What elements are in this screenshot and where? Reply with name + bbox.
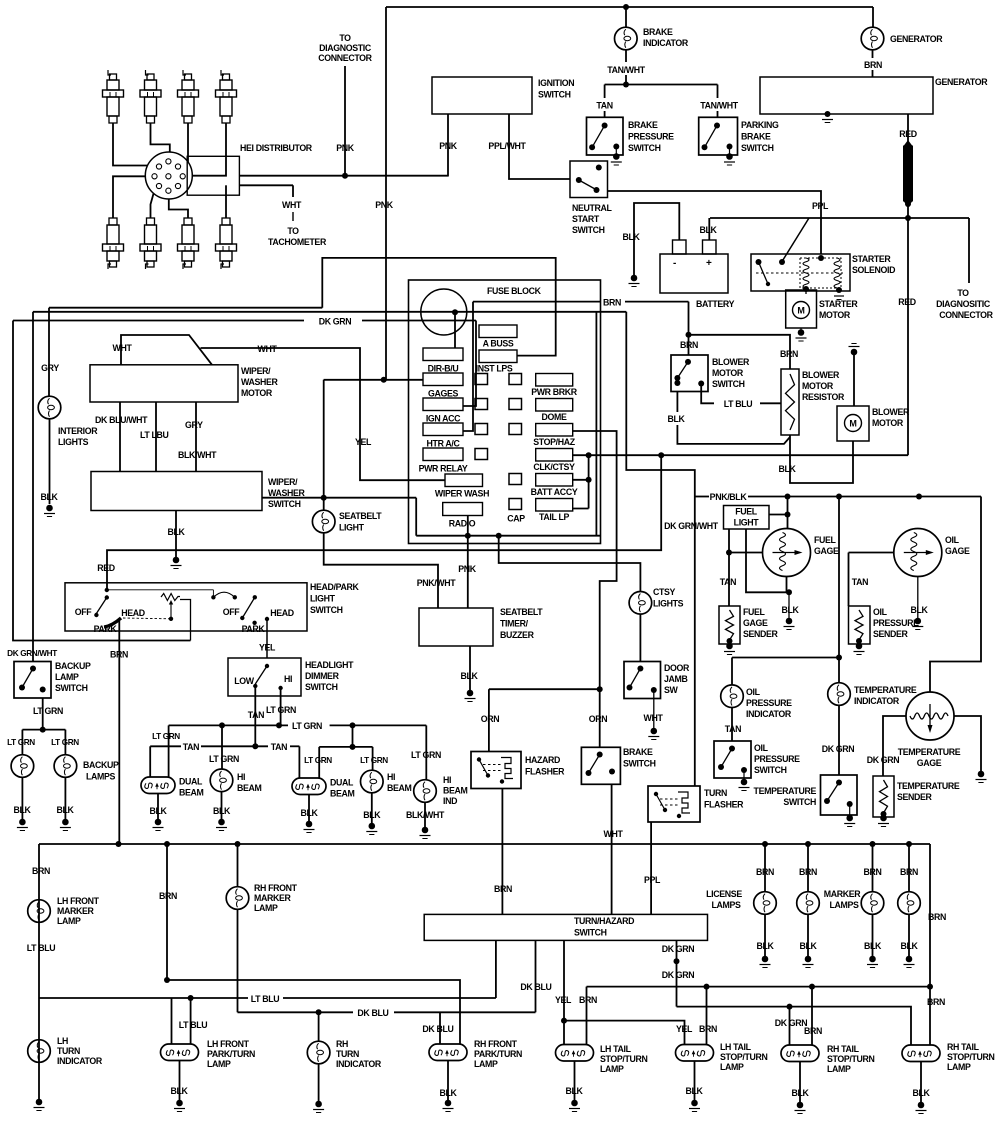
svg-text:RED: RED bbox=[97, 563, 115, 573]
svg-text:LT GRN: LT GRN bbox=[209, 754, 239, 764]
svg-text:BEAM: BEAM bbox=[387, 783, 412, 793]
svg-text:DK GRN: DK GRN bbox=[319, 317, 352, 327]
svg-text:WIPER/: WIPER/ bbox=[268, 477, 298, 487]
svg-text:M: M bbox=[849, 419, 856, 429]
svg-text:LT BLU: LT BLU bbox=[251, 994, 280, 1004]
svg-text:DUAL: DUAL bbox=[330, 778, 354, 788]
svg-text:HI: HI bbox=[387, 772, 395, 782]
svg-text:BRN: BRN bbox=[927, 997, 945, 1007]
svg-text:BLK: BLK bbox=[910, 605, 928, 615]
svg-text:HAZARD: HAZARD bbox=[525, 755, 560, 765]
svg-text:MOTOR: MOTOR bbox=[712, 368, 744, 378]
svg-text:SWITCH: SWITCH bbox=[574, 928, 607, 938]
svg-text:WASHER: WASHER bbox=[241, 377, 279, 387]
svg-text:RH FRONT: RH FRONT bbox=[474, 1039, 518, 1049]
svg-text:RADIO: RADIO bbox=[449, 519, 476, 529]
svg-text:WHT: WHT bbox=[644, 713, 664, 723]
svg-text:BEAM: BEAM bbox=[443, 786, 468, 796]
svg-text:TACHOMETER: TACHOMETER bbox=[268, 237, 327, 247]
svg-text:LAMP: LAMP bbox=[600, 1064, 624, 1074]
svg-text:BLK: BLK bbox=[699, 225, 717, 235]
svg-text:BATTERY: BATTERY bbox=[696, 299, 735, 309]
svg-text:OFF: OFF bbox=[75, 607, 93, 617]
svg-text:INDICATOR: INDICATOR bbox=[643, 38, 689, 48]
svg-text:IGNITION: IGNITION bbox=[538, 78, 574, 88]
svg-text:SWITCH: SWITCH bbox=[712, 379, 745, 389]
svg-text:SENDER: SENDER bbox=[873, 629, 909, 639]
svg-text:BLOWER: BLOWER bbox=[712, 357, 750, 367]
svg-text:BLK: BLK bbox=[900, 941, 918, 951]
svg-text:PWR BRKR: PWR BRKR bbox=[531, 387, 578, 397]
svg-text:TAN: TAN bbox=[725, 724, 741, 734]
svg-text:STOP/TURN: STOP/TURN bbox=[720, 1052, 768, 1062]
svg-text:OIL: OIL bbox=[754, 743, 769, 753]
svg-text:INTERIOR: INTERIOR bbox=[58, 426, 98, 436]
svg-text:LAMP: LAMP bbox=[207, 1059, 231, 1069]
svg-text:TEMPERATURE: TEMPERATURE bbox=[897, 781, 960, 791]
svg-text:BLK: BLK bbox=[170, 1086, 188, 1096]
svg-text:LIGHT: LIGHT bbox=[339, 523, 365, 533]
svg-text:TAN/WHT: TAN/WHT bbox=[700, 101, 738, 111]
svg-text:WHT: WHT bbox=[113, 343, 133, 353]
svg-text:SWITCH: SWITCH bbox=[310, 605, 343, 615]
svg-text:LAMPS: LAMPS bbox=[711, 900, 741, 910]
svg-text:TURN: TURN bbox=[57, 1046, 80, 1056]
svg-text:HTR A/C: HTR A/C bbox=[427, 439, 461, 449]
svg-text:DOME: DOME bbox=[542, 412, 567, 422]
svg-text:PPL/WHT: PPL/WHT bbox=[488, 141, 526, 151]
svg-text:TEMPERATURE: TEMPERATURE bbox=[854, 685, 917, 695]
svg-text:PRESSURE: PRESSURE bbox=[754, 754, 800, 764]
svg-text:BRN: BRN bbox=[699, 1024, 717, 1034]
svg-text:TEMPERATURE: TEMPERATURE bbox=[898, 747, 961, 757]
svg-text:LH: LH bbox=[57, 1036, 68, 1046]
svg-text:LIGHT: LIGHT bbox=[734, 518, 760, 528]
svg-text:LT GRN: LT GRN bbox=[7, 738, 35, 747]
svg-text:SWITCH: SWITCH bbox=[538, 90, 571, 100]
svg-text:BUZZER: BUZZER bbox=[500, 630, 535, 640]
svg-text:PNK: PNK bbox=[439, 141, 458, 151]
svg-text:BLK: BLK bbox=[439, 1088, 457, 1098]
svg-text:HEI DISTRIBUTOR: HEI DISTRIBUTOR bbox=[240, 143, 313, 153]
svg-text:YEL: YEL bbox=[259, 643, 276, 653]
svg-text:WASHER: WASHER bbox=[268, 488, 306, 498]
svg-text:DUAL: DUAL bbox=[179, 777, 203, 787]
svg-text:BLK: BLK bbox=[149, 806, 167, 816]
svg-text:-: - bbox=[673, 258, 676, 269]
svg-text:PARK/TURN: PARK/TURN bbox=[474, 1049, 522, 1059]
svg-text:RH TAIL: RH TAIL bbox=[947, 1042, 980, 1052]
svg-text:PRESSURE: PRESSURE bbox=[873, 618, 919, 628]
svg-text:HI: HI bbox=[284, 674, 292, 684]
svg-text:LT GRN: LT GRN bbox=[411, 750, 441, 760]
svg-text:TURN: TURN bbox=[336, 1049, 359, 1059]
svg-text:BLK/WHT: BLK/WHT bbox=[406, 810, 445, 820]
svg-text:CLK/CTSY: CLK/CTSY bbox=[533, 462, 575, 472]
svg-text:+: + bbox=[706, 258, 712, 269]
svg-text:STARTER: STARTER bbox=[819, 299, 858, 309]
svg-text:BLOWER: BLOWER bbox=[802, 370, 840, 380]
svg-text:GAGE: GAGE bbox=[743, 618, 768, 628]
svg-text:PRESSURE: PRESSURE bbox=[746, 698, 792, 708]
svg-text:SWITCH: SWITCH bbox=[628, 143, 661, 153]
svg-text:GENERATOR: GENERATOR bbox=[935, 77, 988, 87]
svg-text:SENDER: SENDER bbox=[897, 792, 933, 802]
svg-text:LT GRN: LT GRN bbox=[360, 756, 388, 765]
svg-text:BLK: BLK bbox=[912, 1088, 930, 1098]
svg-text:MARKER: MARKER bbox=[824, 889, 862, 899]
svg-text:DK BLU: DK BLU bbox=[422, 1024, 453, 1034]
svg-text:PNK/WHT: PNK/WHT bbox=[417, 578, 457, 588]
svg-text:RED: RED bbox=[898, 297, 916, 307]
svg-text:BRN: BRN bbox=[864, 60, 882, 70]
svg-text:LH TAIL: LH TAIL bbox=[720, 1042, 752, 1052]
svg-text:GAGE: GAGE bbox=[945, 546, 970, 556]
svg-text:DIR-B/U: DIR-B/U bbox=[428, 364, 459, 374]
svg-text:SWITCH: SWITCH bbox=[268, 499, 301, 509]
svg-text:PARK/TURN: PARK/TURN bbox=[207, 1049, 255, 1059]
svg-text:HEAD: HEAD bbox=[270, 608, 294, 618]
svg-text:WIPER WASH: WIPER WASH bbox=[435, 489, 489, 499]
svg-text:FUSE BLOCK: FUSE BLOCK bbox=[487, 286, 542, 296]
svg-text:GENERATOR: GENERATOR bbox=[890, 34, 943, 44]
svg-text:DK GRN/WHT: DK GRN/WHT bbox=[7, 649, 57, 658]
svg-text:FUEL: FUEL bbox=[743, 607, 766, 617]
svg-text:M: M bbox=[797, 306, 804, 316]
svg-text:LT GRN: LT GRN bbox=[152, 732, 180, 741]
svg-text:JAMB: JAMB bbox=[664, 674, 688, 684]
svg-text:TAN: TAN bbox=[271, 742, 287, 752]
svg-text:TAN: TAN bbox=[248, 710, 264, 720]
svg-text:BRN: BRN bbox=[603, 298, 621, 308]
svg-text:BRN: BRN bbox=[32, 866, 50, 876]
svg-text:PARKING: PARKING bbox=[741, 120, 779, 130]
svg-text:PNK/BLK: PNK/BLK bbox=[710, 492, 748, 502]
svg-text:LAMPS: LAMPS bbox=[829, 900, 859, 910]
svg-text:BRN: BRN bbox=[863, 867, 881, 877]
svg-text:LAMP: LAMP bbox=[57, 916, 81, 926]
svg-text:LT BLU: LT BLU bbox=[724, 399, 753, 409]
svg-text:BLK: BLK bbox=[778, 464, 796, 474]
svg-text:BLK: BLK bbox=[781, 605, 799, 615]
svg-text:STOP/TURN: STOP/TURN bbox=[947, 1052, 995, 1062]
svg-text:BLOWER: BLOWER bbox=[872, 407, 910, 417]
svg-text:DIMMER: DIMMER bbox=[305, 671, 340, 681]
svg-text:INDICATOR: INDICATOR bbox=[746, 709, 792, 719]
svg-text:BLK: BLK bbox=[167, 527, 185, 537]
svg-text:TO: TO bbox=[957, 288, 969, 298]
svg-text:STOP/TURN: STOP/TURN bbox=[600, 1054, 648, 1064]
svg-text:PRESSURE: PRESSURE bbox=[628, 132, 674, 142]
svg-text:BRAKE: BRAKE bbox=[628, 120, 658, 130]
svg-text:SW: SW bbox=[664, 685, 679, 695]
svg-text:TAN/WHT: TAN/WHT bbox=[607, 65, 645, 75]
svg-text:LAMP: LAMP bbox=[474, 1059, 498, 1069]
svg-text:BLK: BLK bbox=[213, 806, 231, 816]
svg-text:FUEL: FUEL bbox=[814, 535, 837, 545]
svg-text:BLK: BLK bbox=[40, 492, 58, 502]
svg-text:DK GRN: DK GRN bbox=[662, 970, 695, 980]
svg-text:BRN: BRN bbox=[494, 884, 512, 894]
svg-text:FUEL: FUEL bbox=[735, 507, 758, 517]
svg-text:LT BLU: LT BLU bbox=[179, 1020, 208, 1030]
svg-text:LH FRONT: LH FRONT bbox=[207, 1039, 250, 1049]
svg-text:TIMER/: TIMER/ bbox=[500, 619, 529, 629]
svg-text:BLK: BLK bbox=[622, 232, 640, 242]
svg-text:LT BLU: LT BLU bbox=[27, 943, 56, 953]
svg-text:DK GRN/WHT: DK GRN/WHT bbox=[664, 521, 719, 531]
svg-text:HEAD/PARK: HEAD/PARK bbox=[310, 582, 359, 592]
svg-text:TAN: TAN bbox=[596, 101, 612, 111]
svg-text:LOW: LOW bbox=[234, 676, 255, 686]
svg-text:BRN: BRN bbox=[900, 867, 918, 877]
svg-text:LAMP: LAMP bbox=[827, 1064, 851, 1074]
svg-text:BLK: BLK bbox=[460, 671, 478, 681]
svg-text:WIPER/: WIPER/ bbox=[241, 366, 271, 376]
svg-text:BRN: BRN bbox=[928, 912, 946, 922]
svg-text:LT GRN: LT GRN bbox=[304, 756, 332, 765]
svg-text:BLK: BLK bbox=[363, 810, 381, 820]
svg-text:BRAKE: BRAKE bbox=[623, 747, 653, 757]
svg-text:TAN: TAN bbox=[183, 742, 199, 752]
svg-text:SWITCH: SWITCH bbox=[623, 759, 656, 769]
svg-text:SEATBELT: SEATBELT bbox=[500, 607, 543, 617]
svg-text:ORN: ORN bbox=[589, 714, 608, 724]
svg-text:SWITCH: SWITCH bbox=[572, 225, 605, 235]
svg-text:LT LBU: LT LBU bbox=[140, 430, 169, 440]
svg-text:BRAKE: BRAKE bbox=[741, 132, 771, 142]
svg-text:TURN/HAZARD: TURN/HAZARD bbox=[574, 916, 634, 926]
svg-text:YEL: YEL bbox=[355, 437, 372, 447]
svg-text:BRAKE: BRAKE bbox=[643, 27, 673, 37]
svg-text:YEL: YEL bbox=[555, 995, 572, 1005]
svg-text:SWITCH: SWITCH bbox=[55, 683, 88, 693]
svg-text:FLASHER: FLASHER bbox=[525, 767, 565, 777]
svg-text:BATT ACCY: BATT ACCY bbox=[531, 487, 578, 497]
svg-text:BEAM: BEAM bbox=[330, 789, 355, 799]
svg-text:INDICATOR: INDICATOR bbox=[336, 1059, 382, 1069]
svg-text:OIL: OIL bbox=[873, 607, 888, 617]
svg-text:LIGHTS: LIGHTS bbox=[58, 437, 89, 447]
svg-text:RESISTOR: RESISTOR bbox=[802, 392, 845, 402]
svg-text:MOTOR: MOTOR bbox=[819, 310, 851, 320]
svg-text:MOTOR: MOTOR bbox=[241, 388, 273, 398]
svg-text:SWITCH: SWITCH bbox=[305, 682, 338, 692]
svg-text:GAGE: GAGE bbox=[814, 546, 839, 556]
svg-text:DIAGNOSITIC: DIAGNOSITIC bbox=[936, 299, 991, 309]
svg-text:SENDER: SENDER bbox=[743, 629, 779, 639]
svg-text:BLK: BLK bbox=[300, 808, 318, 818]
svg-text:LT GRN: LT GRN bbox=[292, 721, 322, 731]
svg-text:LAMP: LAMP bbox=[55, 672, 79, 682]
svg-text:SEATBELT: SEATBELT bbox=[339, 511, 382, 521]
svg-text:MOTOR: MOTOR bbox=[802, 381, 834, 391]
svg-text:BRN: BRN bbox=[799, 867, 817, 877]
svg-text:RH FRONT: RH FRONT bbox=[254, 883, 298, 893]
svg-text:CONNECTOR: CONNECTOR bbox=[318, 53, 372, 63]
svg-text:TO: TO bbox=[287, 226, 299, 236]
svg-text:BRN: BRN bbox=[780, 349, 798, 359]
svg-text:WHT: WHT bbox=[604, 829, 624, 839]
svg-text:INST LPS: INST LPS bbox=[476, 364, 513, 374]
svg-text:DK BLU: DK BLU bbox=[520, 982, 551, 992]
svg-text:A BUSS: A BUSS bbox=[483, 339, 514, 349]
svg-text:LT GRN: LT GRN bbox=[51, 738, 79, 747]
svg-text:BEAM: BEAM bbox=[237, 783, 262, 793]
svg-text:LAMP: LAMP bbox=[720, 1062, 744, 1072]
svg-text:PNK: PNK bbox=[458, 564, 477, 574]
svg-text:LIGHT: LIGHT bbox=[310, 594, 336, 604]
svg-text:TURN: TURN bbox=[704, 788, 727, 798]
svg-text:RH: RH bbox=[336, 1039, 348, 1049]
svg-text:BLK: BLK bbox=[799, 941, 817, 951]
svg-text:START: START bbox=[572, 214, 600, 224]
svg-text:DK GRN: DK GRN bbox=[822, 744, 855, 754]
svg-text:OFF: OFF bbox=[223, 607, 241, 617]
svg-text:CTSY: CTSY bbox=[653, 587, 676, 597]
svg-text:BLK: BLK bbox=[864, 941, 882, 951]
svg-text:BACKUP: BACKUP bbox=[55, 661, 91, 671]
svg-text:HEAD: HEAD bbox=[121, 608, 145, 618]
svg-text:GRY: GRY bbox=[41, 363, 59, 373]
svg-text:TO: TO bbox=[339, 33, 351, 43]
svg-text:LT GRN: LT GRN bbox=[33, 706, 63, 716]
svg-text:STOP/TURN: STOP/TURN bbox=[827, 1054, 875, 1064]
svg-text:LIGHTS: LIGHTS bbox=[653, 599, 684, 609]
svg-text:PWR RELAY: PWR RELAY bbox=[419, 464, 468, 474]
svg-text:IGN ACC: IGN ACC bbox=[426, 414, 461, 424]
svg-text:BLK: BLK bbox=[13, 805, 31, 815]
svg-text:FLASHER: FLASHER bbox=[704, 800, 744, 810]
svg-text:BACKUP: BACKUP bbox=[83, 760, 119, 770]
svg-text:CAP: CAP bbox=[507, 514, 525, 524]
svg-text:LH FRONT: LH FRONT bbox=[57, 896, 100, 906]
svg-text:BLK/WHT: BLK/WHT bbox=[178, 450, 217, 460]
svg-text:BLK: BLK bbox=[685, 1086, 703, 1096]
svg-text:DIAGNOSTIC: DIAGNOSTIC bbox=[319, 43, 372, 53]
svg-text:BLK: BLK bbox=[56, 805, 74, 815]
svg-text:GRY: GRY bbox=[185, 420, 203, 430]
svg-text:BLK: BLK bbox=[791, 1088, 809, 1098]
svg-text:SWITCH: SWITCH bbox=[783, 797, 816, 807]
svg-text:INDICATOR: INDICATOR bbox=[57, 1056, 103, 1066]
svg-text:GAGE: GAGE bbox=[917, 758, 942, 768]
svg-text:LT GRN: LT GRN bbox=[266, 705, 296, 715]
svg-text:DK GRN: DK GRN bbox=[775, 1018, 808, 1028]
svg-text:TAIL LP: TAIL LP bbox=[539, 512, 569, 522]
svg-text:INDICATOR: INDICATOR bbox=[854, 696, 900, 706]
svg-text:PPL: PPL bbox=[812, 201, 829, 211]
svg-text:PARK: PARK bbox=[242, 624, 266, 634]
svg-text:MARKER: MARKER bbox=[57, 906, 95, 916]
svg-text:BRN: BRN bbox=[110, 650, 128, 660]
svg-text:MOTOR: MOTOR bbox=[872, 418, 904, 428]
svg-text:STOP/HAZ: STOP/HAZ bbox=[533, 437, 575, 447]
svg-text:CONNECTOR: CONNECTOR bbox=[939, 310, 993, 320]
svg-text:WHT: WHT bbox=[258, 344, 278, 354]
svg-text:PNK: PNK bbox=[375, 200, 394, 210]
svg-text:TEMPERATURE: TEMPERATURE bbox=[754, 786, 817, 796]
svg-text:LAMPS: LAMPS bbox=[86, 772, 116, 782]
svg-text:SWITCH: SWITCH bbox=[754, 765, 787, 775]
svg-text:DK GRN: DK GRN bbox=[662, 944, 695, 954]
svg-text:LICENSE: LICENSE bbox=[706, 889, 742, 899]
svg-text:IND: IND bbox=[443, 796, 457, 806]
svg-text:DK BLU: DK BLU bbox=[357, 1008, 388, 1018]
svg-text:STARTER: STARTER bbox=[852, 254, 891, 264]
svg-text:BRN: BRN bbox=[756, 867, 774, 877]
svg-text:HEADLIGHT: HEADLIGHT bbox=[305, 660, 354, 670]
svg-text:WHT: WHT bbox=[282, 200, 302, 210]
svg-text:DK GRN: DK GRN bbox=[867, 755, 900, 765]
svg-text:SOLENOID: SOLENOID bbox=[852, 265, 895, 275]
svg-text:ORN: ORN bbox=[481, 714, 500, 724]
svg-text:HI: HI bbox=[237, 772, 245, 782]
svg-text:HI: HI bbox=[443, 775, 451, 785]
svg-text:NEUTRAL: NEUTRAL bbox=[572, 203, 613, 213]
svg-text:LAMP: LAMP bbox=[947, 1062, 971, 1072]
svg-text:DK BLU/WHT: DK BLU/WHT bbox=[95, 415, 148, 425]
svg-text:LAMP: LAMP bbox=[254, 903, 278, 913]
svg-text:TAN: TAN bbox=[852, 577, 868, 587]
svg-text:BRN: BRN bbox=[579, 995, 597, 1005]
svg-text:LH TAIL: LH TAIL bbox=[600, 1044, 632, 1054]
svg-text:BEAM: BEAM bbox=[179, 788, 204, 798]
svg-text:YEL: YEL bbox=[676, 1024, 693, 1034]
svg-text:MARKER: MARKER bbox=[254, 893, 292, 903]
svg-text:RH TAIL: RH TAIL bbox=[827, 1044, 860, 1054]
svg-text:BLK: BLK bbox=[565, 1086, 583, 1096]
svg-text:PPL: PPL bbox=[644, 875, 661, 885]
svg-text:BLK: BLK bbox=[667, 414, 685, 424]
svg-text:TAN: TAN bbox=[720, 577, 736, 587]
svg-text:GAGES: GAGES bbox=[428, 389, 459, 399]
svg-text:BRN: BRN bbox=[159, 891, 177, 901]
svg-text:DOOR: DOOR bbox=[664, 663, 690, 673]
svg-text:SWITCH: SWITCH bbox=[741, 143, 774, 153]
svg-text:OIL: OIL bbox=[945, 535, 960, 545]
svg-text:BLK: BLK bbox=[756, 941, 774, 951]
svg-text:OIL: OIL bbox=[746, 687, 761, 697]
svg-text:PNK: PNK bbox=[336, 143, 355, 153]
